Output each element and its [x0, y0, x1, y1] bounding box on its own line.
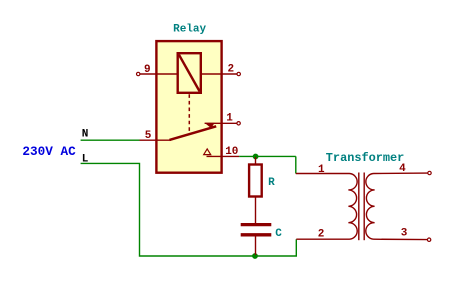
svg-text:N: N: [82, 129, 89, 141]
svg-text:L: L: [82, 154, 89, 166]
svg-text:C: C: [275, 228, 282, 240]
svg-text:Transformer: Transformer: [326, 151, 405, 165]
svg-text:5: 5: [145, 130, 152, 142]
svg-text:230V AC: 230V AC: [22, 144, 76, 159]
svg-text:9: 9: [144, 64, 151, 76]
svg-text:10: 10: [225, 146, 238, 158]
svg-text:3: 3: [401, 228, 408, 240]
svg-text:Relay: Relay: [173, 23, 206, 35]
svg-text:1: 1: [318, 164, 325, 176]
svg-text:2: 2: [318, 229, 325, 241]
svg-text:4: 4: [399, 163, 406, 175]
svg-text:2: 2: [228, 64, 235, 76]
svg-text:1: 1: [226, 113, 233, 125]
svg-text:R: R: [268, 177, 275, 189]
